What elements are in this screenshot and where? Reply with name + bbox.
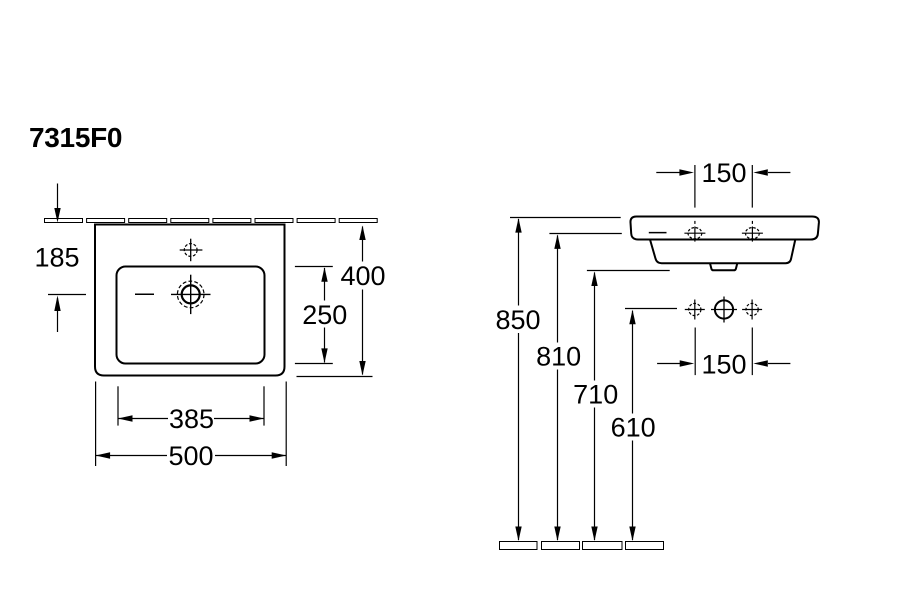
side view rim bar (630, 217, 818, 240)
svg-text:810: 810 (536, 342, 581, 372)
svg-text:185: 185 (34, 243, 79, 273)
floor hatch (500, 542, 664, 550)
dimension 385 (118, 386, 264, 425)
dimension 150 top (656, 165, 790, 208)
overflow dash (front view) (135, 293, 154, 295)
svg-text:400: 400 (340, 261, 385, 291)
dimension 250 (295, 267, 333, 364)
dimension 400 (297, 227, 373, 377)
dimension 610 (625, 309, 677, 541)
svg-text:850: 850 (495, 305, 540, 335)
tap hole left (side view) (684, 221, 705, 242)
svg-text:250: 250 (302, 300, 347, 330)
svg-text:150: 150 (701, 349, 746, 379)
dimension 710 (587, 271, 670, 541)
dimension 150 bottom (657, 328, 790, 376)
mounting hole right (742, 300, 762, 320)
mounting hole center (large) (711, 297, 737, 323)
basin outer outline (front view) (95, 225, 285, 376)
side view drain stub (710, 263, 737, 270)
wall hatch (front view, top) (45, 219, 378, 223)
svg-text:500: 500 (168, 441, 213, 471)
side view overflow dash (649, 232, 667, 234)
tap hole right (side view) (742, 221, 763, 242)
basin inner rounded rect (front view) (117, 267, 265, 364)
faucet hole (front view) (180, 239, 203, 262)
svg-text:7315F0: 7315F0 (29, 122, 122, 153)
dimension 185 (48, 184, 86, 333)
svg-text:150: 150 (701, 158, 746, 188)
svg-text:385: 385 (169, 404, 214, 434)
drain hole (front view) (171, 275, 211, 314)
dimension 500 (96, 382, 287, 467)
svg-text:710: 710 (573, 380, 618, 410)
dimension 850 (510, 218, 621, 541)
dimension 810 (549, 234, 621, 541)
mounting hole left (685, 300, 705, 320)
svg-text:610: 610 (611, 412, 656, 442)
side view bowl (650, 240, 795, 264)
